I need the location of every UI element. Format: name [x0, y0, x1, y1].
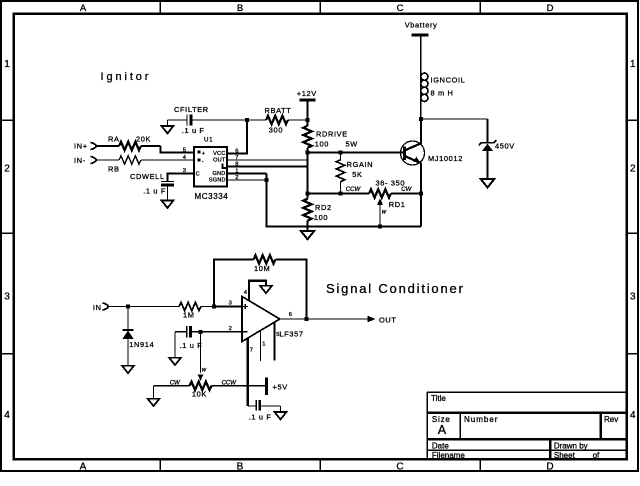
- svg-text:Drawn by: Drawn by: [554, 441, 588, 450]
- wire input: [109, 306, 180, 308]
- ground CDWELL: [162, 201, 174, 208]
- svg-text:RGAIN: RGAIN: [347, 160, 374, 169]
- svg-text:B: B: [237, 3, 243, 14]
- title block box: [427, 391, 626, 393]
- resistor RDRIVE 100 5W: [303, 120, 358, 153]
- svg-text:.1 u F: .1 u F: [180, 341, 203, 350]
- svg-text:6: 6: [289, 312, 292, 318]
- top band ticks: [159, 2, 161, 14]
- svg-text:VCC: VCC: [213, 151, 225, 157]
- svg-text:SGND: SGND: [209, 178, 226, 184]
- size/number divider: [459, 413, 461, 440]
- svg-text:A: A: [80, 3, 87, 14]
- svg-text:D: D: [546, 461, 553, 472]
- svg-text:CW: CW: [170, 381, 181, 387]
- svg-text:RB: RB: [108, 164, 120, 173]
- node diode junction: [126, 305, 130, 309]
- op-amp U2 LF357: [242, 297, 304, 342]
- potentiometer R3 10K: [154, 381, 266, 399]
- svg-text:8: 8: [235, 161, 238, 167]
- svg-text:LF357: LF357: [279, 330, 303, 339]
- ground pin4: [260, 286, 272, 293]
- node RBATT/CFILTER/pin6 junction: [245, 118, 249, 122]
- svg-text:2: 2: [630, 163, 636, 174]
- node pin2 junction: [265, 178, 269, 182]
- resistor RD2 100: [303, 194, 331, 227]
- svg-text:Filename: Filename: [432, 451, 465, 460]
- node output/feedback junction: [305, 317, 309, 321]
- svg-text:IN-: IN-: [74, 156, 86, 165]
- svg-text:7: 7: [235, 155, 238, 161]
- output arrow OUT: [368, 315, 397, 324]
- node +12V/RBATT/RDRIVE junction: [306, 118, 310, 122]
- svg-text:300: 300: [269, 126, 283, 135]
- title block row line 4: [427, 449, 626, 451]
- svg-text:GND: GND: [212, 171, 225, 177]
- RD1 wiper arrow: [377, 198, 387, 226]
- capacitor C3 .1uF bypass: [248, 400, 281, 422]
- svg-text:A: A: [80, 461, 87, 472]
- feedback loop wires: [214, 260, 254, 307]
- svg-text:CW: CW: [401, 187, 412, 193]
- ground 1N914: [122, 366, 134, 373]
- input connector IN+: [74, 142, 96, 151]
- capacitor C2 .1uF on pin2: [175, 326, 202, 358]
- svg-text:MC3334: MC3334: [195, 192, 229, 201]
- node RGAIN bottom junction: [339, 192, 343, 196]
- power symbol +12V: [297, 89, 317, 120]
- ground CFILTER: [162, 126, 174, 133]
- date/drawnby divider: [549, 439, 552, 459]
- wiper wire 10K: [198, 332, 207, 381]
- svg-text:10K: 10K: [192, 389, 207, 398]
- rev divider: [599, 413, 602, 440]
- svg-text:IN+: IN+: [74, 142, 88, 151]
- wire pin2 input: [201, 331, 243, 333]
- node emitter/RD1 junction: [419, 192, 423, 196]
- resistor RBATT 300: [247, 106, 308, 135]
- U1 pin numbers: [183, 147, 239, 181]
- svg-text:1: 1: [262, 341, 265, 347]
- wire to zener: [421, 118, 488, 120]
- svg-text:1: 1: [630, 59, 636, 70]
- svg-text:RA: RA: [108, 134, 120, 143]
- power symbol +5V: [267, 378, 288, 395]
- svg-text:Vbattery: Vbattery: [405, 21, 438, 30]
- svg-text:w: w: [202, 368, 207, 374]
- potentiometer RD1 36-350: [369, 179, 421, 209]
- svg-text:1M: 1M: [183, 310, 195, 319]
- svg-text:7: 7: [250, 348, 253, 354]
- bottom band ticks: [159, 459, 161, 470]
- node pin2/wiper junction: [199, 330, 203, 334]
- transistor Q1 MJ10012: [401, 141, 463, 165]
- ground zener: [481, 179, 494, 187]
- svg-text:20K: 20K: [136, 134, 151, 143]
- resistor RA 20K: [97, 134, 187, 152]
- wire emitter ground rail: [267, 174, 422, 227]
- svg-text:.1 u F: .1 u F: [182, 126, 205, 135]
- svg-text:Signal Conditioner: Signal Conditioner: [326, 281, 465, 296]
- svg-text:IN: IN: [93, 303, 102, 312]
- svg-text:CFILTER: CFILTER: [174, 105, 209, 114]
- input connector IN: [93, 303, 109, 312]
- node collector/zener junction: [419, 117, 423, 121]
- svg-text:3: 3: [630, 292, 636, 303]
- power symbol Vbattery: [405, 21, 438, 36]
- svg-text:Ignitor: Ignitor: [101, 71, 152, 83]
- svg-text:+: +: [202, 151, 205, 157]
- inductor IGNCOIL 8mH: [421, 36, 466, 119]
- svg-text:Sheet: Sheet: [554, 451, 576, 460]
- node feedback/input junction: [212, 305, 216, 309]
- ground C3: [275, 412, 287, 419]
- zener diode 450V: [479, 119, 515, 179]
- svg-text:U1: U1: [204, 137, 213, 144]
- IC U1 MC3334 box: [194, 147, 227, 187]
- pin 4 wire to ground: [244, 281, 266, 301]
- svg-text:5: 5: [276, 332, 279, 338]
- wire base rail: [308, 151, 405, 153]
- svg-text:3: 3: [229, 300, 232, 306]
- wire pin8: [235, 165, 308, 167]
- wire emitter: [420, 163, 422, 227]
- ground RD2: [301, 227, 314, 240]
- pin 5 stub: [275, 322, 280, 360]
- svg-text:1: 1: [235, 168, 238, 174]
- svg-text:2: 2: [229, 326, 232, 332]
- svg-text:A: A: [438, 423, 447, 437]
- svg-text:RBATT: RBATT: [265, 106, 292, 115]
- svg-text:2: 2: [235, 175, 238, 181]
- diode D1 1N914: [122, 307, 154, 366]
- svg-text:IGNCOIL: IGNCOIL: [431, 76, 466, 85]
- svg-text:-: -: [202, 158, 204, 164]
- svg-text:6: 6: [235, 148, 238, 154]
- U1 pin stubs: [186, 153, 235, 181]
- pin 7 wire V+: [248, 338, 253, 406]
- wire OUT/pin8 vertical: [306, 153, 308, 194]
- svg-text:2: 2: [4, 163, 10, 174]
- svg-text:Title: Title: [431, 394, 446, 403]
- svg-text:10M: 10M: [254, 264, 270, 273]
- svg-text:C: C: [397, 3, 404, 14]
- svg-text:1: 1: [4, 59, 10, 70]
- svg-text:w: w: [382, 210, 387, 216]
- svg-text:C: C: [196, 171, 200, 177]
- svg-text:4: 4: [630, 410, 636, 421]
- title block row line 2: [427, 411, 626, 414]
- right band ticks: [627, 119, 638, 121]
- resistor RGAIN 5K: [336, 153, 373, 194]
- resistor R1 1M: [179, 302, 214, 319]
- wire pin7 OUT: [235, 159, 308, 161]
- capacitor CFILTER .1uF: [168, 105, 248, 135]
- U1 inside labels: [196, 151, 227, 184]
- svg-text:RD2: RD2: [315, 203, 332, 212]
- resistor R2 10M: [254, 255, 276, 273]
- svg-text:5K: 5K: [352, 170, 362, 179]
- svg-text:Rev: Rev: [604, 415, 618, 424]
- ground C2: [169, 358, 181, 365]
- svg-text:C: C: [396, 461, 403, 472]
- svg-text:100: 100: [315, 139, 329, 148]
- svg-text:+12V: +12V: [297, 89, 317, 98]
- svg-text:D: D: [547, 3, 554, 14]
- node wiper rail left junction: [306, 192, 310, 196]
- svg-text:B: B: [237, 461, 244, 472]
- svg-text:OUT: OUT: [379, 315, 397, 324]
- svg-text:CDWELL: CDWELL: [130, 172, 165, 181]
- pin 1 stub: [261, 330, 266, 361]
- svg-text:RD1: RD1: [389, 200, 406, 209]
- svg-text:8 m H: 8 m H: [431, 88, 454, 97]
- svg-text:OUT: OUT: [213, 158, 226, 164]
- wire pin2 SGND: [235, 179, 267, 181]
- svg-text:of: of: [593, 451, 600, 460]
- wire to op-amp +input: [214, 305, 242, 307]
- svg-text:4: 4: [4, 410, 10, 421]
- ground 10K: [148, 399, 160, 406]
- svg-text:Number: Number: [464, 415, 498, 424]
- left band ticks: [2, 119, 14, 121]
- title block row line 3: [427, 438, 626, 441]
- svg-text:100: 100: [314, 213, 328, 222]
- node RGAIN top junction: [339, 151, 343, 155]
- svg-text:.1 u F: .1 u F: [143, 186, 166, 195]
- wire wiper rail: [308, 192, 370, 194]
- svg-text:450V: 450V: [495, 142, 515, 151]
- svg-text:RDRIVE: RDRIVE: [316, 129, 348, 138]
- wire pin1 GND: [235, 172, 267, 174]
- resistor RB: [97, 156, 187, 174]
- node RD1 wiper on ground rail: [378, 225, 382, 229]
- wire pin6 VCC to +12V node: [235, 120, 247, 154]
- svg-text:.1 u F: .1 u F: [249, 413, 272, 422]
- capacitor CDWELL .1uF: [130, 172, 194, 200]
- input connector IN-: [74, 156, 96, 165]
- svg-text:3: 3: [4, 292, 10, 303]
- node RDRIVE bottom junction: [306, 151, 310, 155]
- svg-text:+5V: +5V: [273, 383, 288, 392]
- svg-text:CCW: CCW: [222, 381, 238, 387]
- wire collector: [420, 119, 422, 144]
- svg-text:1N914: 1N914: [129, 340, 154, 349]
- svg-text:MJ10012: MJ10012: [428, 154, 463, 163]
- svg-text:5W: 5W: [346, 139, 358, 148]
- svg-text:CCW: CCW: [346, 187, 362, 193]
- svg-text:Date: Date: [432, 441, 449, 450]
- wire output pin6: [280, 318, 369, 320]
